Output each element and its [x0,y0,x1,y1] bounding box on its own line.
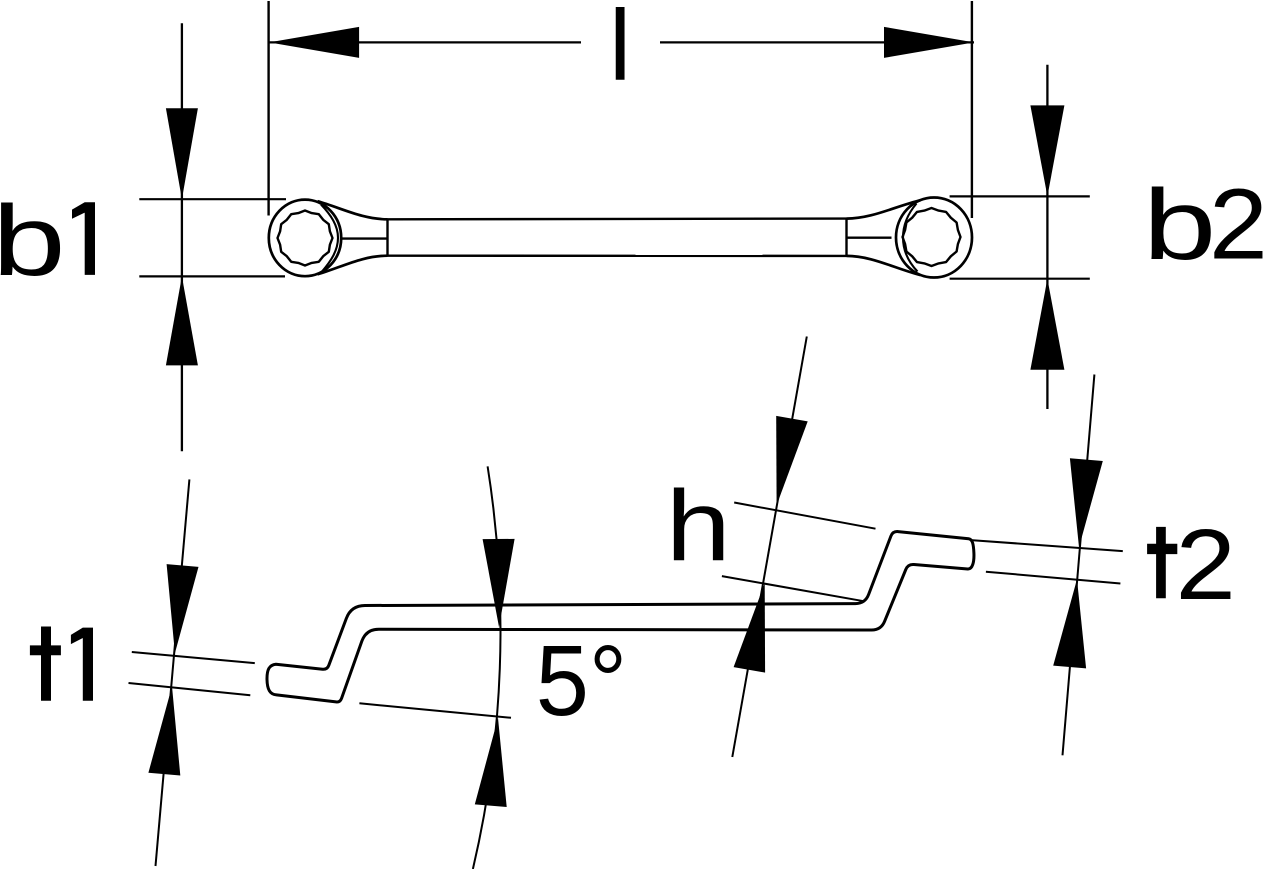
dimension b1: upper arrowhead [166,108,198,199]
wrench top view: right ring outer boss circle [896,198,972,278]
wrench top view: shaft bottom edge [388,254,847,257]
wrench top view: left neck lower outline [318,256,388,275]
wrench top view: right neck upper outline [847,200,921,218]
dimension l: left extension line [267,1,269,216]
dimension t1: upper arrowhead [167,564,199,653]
label b1: digit 1 [72,202,95,275]
dimension h: dimension line [732,337,807,758]
dimension b1: upper reference line [139,198,286,200]
dimension l: right extension line [971,1,973,218]
dimension b2: dimension line [1046,65,1048,409]
wrench top view: left head-shaft junction line [386,219,388,255]
dimension t1: upper reference line [132,652,255,663]
dimension 5deg: lower arrowhead [475,718,507,807]
dimension h: lower reference line [722,576,864,601]
dimension t2: lower reference line [986,572,1121,584]
wrench top view: left neck upper outline [318,201,388,219]
dimension 5deg: dimension arc [473,466,501,869]
svg-text:b: b [0,185,66,297]
wrench top view: right neck mid parting line [847,236,892,238]
dimension b2: upper reference line [950,195,1090,197]
dimension h: upper arrowhead [776,416,808,505]
dimension b2: lower arrowhead [1030,279,1064,370]
dimension t2: upper arrowhead [1070,458,1103,547]
svg-text:h: h [666,470,731,582]
svg-text:2: 2 [1209,169,1264,281]
wrench top view: shaft top edge [388,217,847,220]
dimension t2: dimension line [1063,375,1095,756]
dimension b2: lower reference line [950,278,1090,280]
svg-text:b: b [1143,169,1216,281]
wrench top view: right neck lower outline [847,256,921,275]
dimension l: dimension line left segment [269,41,581,43]
wrench top view: right head-shaft junction line [845,219,847,256]
dimension t2: upper reference line [971,540,1123,551]
label t1: custom t glyph [30,627,61,701]
wrench top view: left ring outer boss circle [269,200,341,277]
label t1: digit 1 [71,628,93,701]
dimension t1: lower arrowhead [148,686,180,775]
dimension b1: lower reference line [139,275,285,277]
wrench top view: left ring boss/neck crescent edge [321,205,338,272]
dimension 5deg: angled reference line [359,703,511,718]
dimension b2: upper arrowhead [1030,105,1064,196]
wrench top view: left neck mid parting line [341,237,388,239]
dimension t2: lower arrowhead [1053,579,1086,668]
svg-text:5°: 5° [536,625,627,737]
dimension 5deg: upper arrowhead [483,539,515,627]
wrench top view: right ring 12-point bi-hex opening [903,208,961,266]
dimension t1: dimension line [156,479,190,866]
wrench top view: left ring 12-point bi-hex opening [278,211,333,266]
svg-text:l: l [609,0,631,102]
dimension t1: lower reference line [129,683,251,695]
dimension b1: lower arrowhead [166,276,198,365]
dimension l: dimension line right segment [660,41,974,43]
label t2: custom t glyph [1147,527,1177,598]
dimension h: upper reference line [734,503,875,529]
wrench top view: right ring boss/neck crescent edge [903,204,918,272]
svg-text:2: 2 [1176,509,1236,621]
wrench side view: offset wrench outline [267,532,974,702]
dimension h: lower arrowhead [734,583,766,672]
dimension b1: dimension line [181,23,183,451]
dimension l: left arrowhead [269,27,359,58]
dimension l: right arrowhead [884,27,974,58]
